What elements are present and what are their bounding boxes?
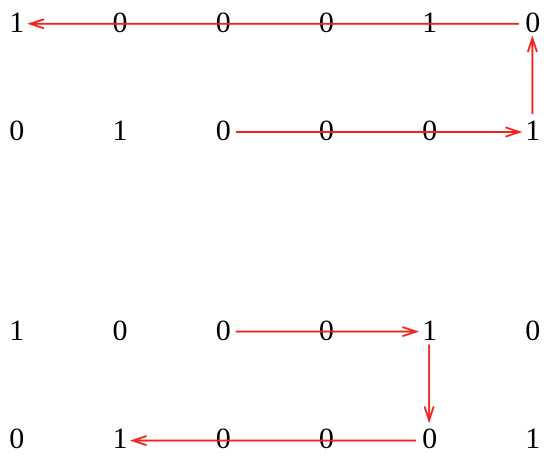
wire arrow row2 head pointing right bbox=[506, 128, 519, 137]
svg-text:0: 0 bbox=[422, 114, 437, 147]
svg-text:1: 1 bbox=[525, 422, 540, 455]
svg-text:0: 0 bbox=[319, 114, 334, 147]
wire arrow col5 vertical shaft from row3 down to row4 bbox=[428, 345, 430, 420]
svg-text:1: 1 bbox=[9, 314, 24, 347]
svg-text:0: 0 bbox=[216, 422, 231, 455]
svg-text:0: 0 bbox=[525, 314, 540, 347]
svg-text:1: 1 bbox=[113, 422, 128, 455]
svg-text:0: 0 bbox=[113, 314, 128, 347]
wire arrow col5 vertical head pointing down bbox=[425, 407, 434, 420]
svg-text:1: 1 bbox=[422, 314, 437, 347]
wire arrow row4 shaft from col5 to col2 bbox=[133, 440, 415, 442]
svg-text:0: 0 bbox=[422, 422, 437, 455]
svg-text:0: 0 bbox=[9, 422, 24, 455]
wire arrow row2 shaft from col3 to col6 bbox=[237, 131, 520, 133]
wire arrow row3 head pointing right bbox=[403, 327, 416, 336]
svg-text:1: 1 bbox=[422, 6, 437, 39]
svg-text:0: 0 bbox=[216, 114, 231, 147]
svg-text:0: 0 bbox=[525, 6, 540, 39]
svg-text:0: 0 bbox=[319, 6, 334, 39]
svg-text:0: 0 bbox=[216, 6, 231, 39]
svg-text:0: 0 bbox=[319, 422, 334, 455]
svg-text:1: 1 bbox=[113, 114, 128, 147]
svg-text:1: 1 bbox=[525, 114, 540, 147]
wire arrow row4 head pointing left bbox=[133, 436, 146, 445]
svg-text:0: 0 bbox=[9, 114, 24, 147]
svg-text:0: 0 bbox=[319, 314, 334, 347]
wire arrow row1 head pointing left bbox=[30, 19, 43, 28]
wire arrow row3 shaft from col3 to col5 bbox=[237, 331, 417, 333]
svg-text:0: 0 bbox=[216, 314, 231, 347]
svg-text:1: 1 bbox=[9, 6, 24, 39]
wire arrow row1 shaft from col6 to col1 bbox=[30, 23, 518, 25]
wire arrow col6 vertical shaft from row2 up to row1 bbox=[531, 38, 533, 113]
wire arrow col6 vertical head pointing up bbox=[528, 38, 537, 51]
svg-text:0: 0 bbox=[113, 6, 128, 39]
